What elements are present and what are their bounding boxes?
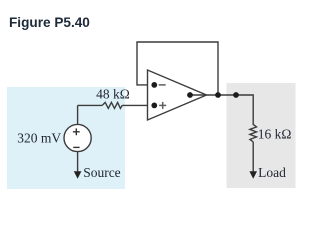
svg-text:320 mV: 320 mV [17, 130, 61, 145]
svg-text:Source: Source [83, 165, 121, 180]
svg-text:Load: Load [258, 165, 286, 180]
svg-text:48 kΩ: 48 kΩ [96, 87, 130, 102]
svg-text:16 kΩ: 16 kΩ [258, 127, 292, 142]
